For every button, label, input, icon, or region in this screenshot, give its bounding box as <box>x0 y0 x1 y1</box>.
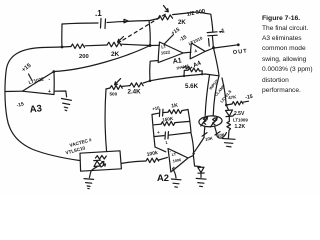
node clamp <box>225 104 228 107</box>
wire: 100k to A2 input <box>159 157 168 160</box>
resistor R11 100k <box>146 150 159 163</box>
node OUT terminal <box>237 43 240 46</box>
svg-text:1.2K: 1.2K <box>235 124 246 130</box>
svg-text:2.5V: 2.5V <box>234 111 245 117</box>
ground G5 (clamp chain) <box>223 131 236 147</box>
node: main bridge junction <box>149 44 152 47</box>
A2 feedback network box <box>152 103 194 152</box>
wire: left vertical of top feedback loop <box>61 24 63 47</box>
svg-text:1K: 1K <box>171 103 179 110</box>
potentiometer R2 2K <box>107 37 124 59</box>
wire: A1 lower input down to row <box>150 61 158 81</box>
wire: LED cathode to ground <box>89 167 97 178</box>
caption block <box>262 14 320 97</box>
node: left junction <box>61 46 64 49</box>
svg-text:.1: .1 <box>95 9 102 18</box>
resistor R1 200 <box>71 44 89 60</box>
wire: 2.4K to row junction <box>143 81 150 83</box>
label INPUT CLAMP LEVELS <box>208 78 233 104</box>
resistor R10 150K <box>154 123 161 126</box>
svg-text:LT1009: LT1009 <box>233 118 248 123</box>
wire: curve to left photocell <box>205 75 209 115</box>
network left edge <box>152 115 155 148</box>
svg-text:2.4K: 2.4K <box>128 89 142 96</box>
wire: junction to A1 input <box>150 44 160 46</box>
wire OUT <box>214 45 238 48</box>
op-amp A3 LT1022 (points left) <box>16 72 54 116</box>
capacitor C2 .1 (output node) <box>207 28 226 36</box>
op-amp A1 LT1022 <box>158 42 183 65</box>
svg-text:A2: A2 <box>157 172 169 183</box>
wire: A1 out to A4 <box>183 51 192 54</box>
zener D1 LT1009 2.5V <box>226 105 249 123</box>
network bottom corners <box>155 147 166 152</box>
wire: A4 out to output junction <box>205 48 213 51</box>
vactrol box <box>80 151 121 171</box>
wire: output junction down to row <box>214 48 220 76</box>
wire: curve to right photocell <box>213 76 219 116</box>
wire: box to 100k input <box>122 161 146 163</box>
label VACTEC # VTL5C10 <box>65 137 93 155</box>
potentiometer R3 2K (upper, 1/2 300) <box>158 6 206 27</box>
wire: main row left end <box>42 46 62 49</box>
wire: left photocell bottom lead to A2 out node <box>195 127 214 152</box>
wire: big left loop rail <box>5 48 80 161</box>
svg-text:-15: -15 <box>245 94 253 101</box>
resistor R5 47K to -15 <box>226 94 253 105</box>
wire: row to resistor <box>62 46 71 49</box>
node: output junction <box>212 46 215 49</box>
diodes 1N4148 scribble <box>176 64 192 71</box>
photocell inside box <box>96 155 107 159</box>
wire: top row to pot2 <box>150 19 158 21</box>
wire: A3 +input to ground <box>54 91 67 97</box>
resistor R4 5.6K loop <box>183 68 203 90</box>
node: A2 out / network <box>192 152 194 154</box>
ground G2 (box) <box>84 179 94 189</box>
svg-text:+: + <box>48 89 51 95</box>
resistor R9 1K <box>163 111 168 113</box>
ground G3 (A2 +) <box>171 179 181 187</box>
wire: row pot to junction <box>122 44 150 45</box>
opto photocell pair (oval) <box>199 115 223 127</box>
svg-text:+: + <box>157 130 160 135</box>
label +15 (A3) <box>21 62 33 79</box>
LED inside box <box>94 160 106 167</box>
wire: A2 +input to ground <box>173 169 176 178</box>
wire: 500 to 2.4K <box>122 85 130 88</box>
arrow on top wire <box>124 19 128 23</box>
wire: curve to clamp node <box>222 78 226 105</box>
wire: A2 output node <box>188 152 194 158</box>
wire: cap to output junction <box>212 36 213 48</box>
svg-text:A1: A1 <box>172 57 182 65</box>
wire: vertical drop to main node <box>149 21 150 46</box>
diode D2 <box>198 167 204 177</box>
svg-text:2K: 2K <box>178 20 186 26</box>
wire: A2 out down to diode <box>193 155 200 166</box>
wire: right photocell bottom lead to clamp chain <box>215 127 227 138</box>
svg-text:500: 500 <box>110 92 118 97</box>
ground G1 (A3) <box>62 99 72 111</box>
ground G4 (diode) <box>196 178 206 186</box>
op-amp A4 LT1010 buffer <box>188 35 205 69</box>
wire: top feedback horizontal right with arrow <box>107 21 149 23</box>
wire: row between 200 and pot <box>85 44 107 47</box>
network right edge <box>188 110 191 134</box>
capacitor C4 <box>155 135 164 138</box>
op-amp A2 LT1006 <box>157 149 188 184</box>
wire: top feedback horizontal left <box>62 23 98 24</box>
label +15 (A1) <box>164 27 181 44</box>
potentiometer R7 500 <box>106 79 122 97</box>
svg-text:5.6K: 5.6K <box>185 83 199 90</box>
wire: A4 power pin tick <box>208 39 211 47</box>
node on gain row <box>149 80 152 83</box>
svg-text:1022: 1022 <box>161 49 171 55</box>
capacitor C3 10uF + <box>152 113 159 114</box>
resistor R6 1.2K <box>227 117 246 131</box>
svg-text:A3: A3 <box>29 103 42 115</box>
wire: A3 -input swoop to main junction <box>54 46 150 72</box>
wire: A3 output to left rail <box>5 90 22 92</box>
svg-text:2K: 2K <box>111 51 120 58</box>
svg-text:200: 200 <box>79 54 89 60</box>
wire: gain row (sloping) <box>150 74 219 81</box>
wire: pot2 to top-right corner and down <box>173 12 213 32</box>
gang dashed line between pots <box>123 13 168 41</box>
capacitor C1 .1 <box>95 9 106 29</box>
resistor R8 2.4K <box>128 83 144 96</box>
wire: row corner down to box <box>105 89 106 152</box>
